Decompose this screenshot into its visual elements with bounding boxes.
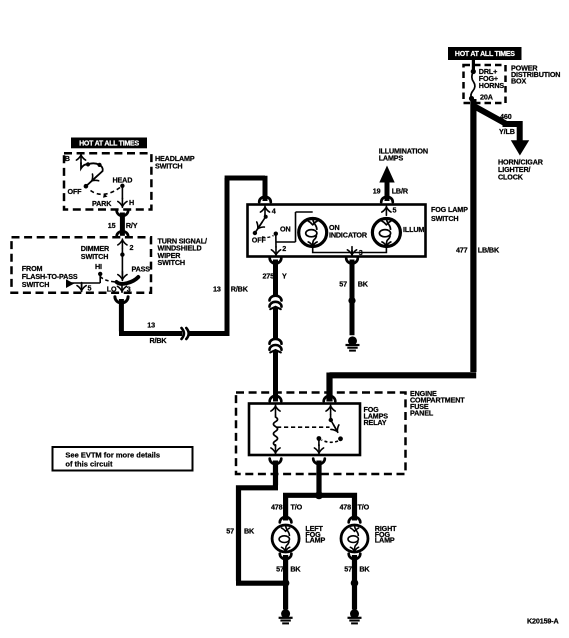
svg-text:3: 3 <box>359 248 363 257</box>
svg-text:BK: BK <box>358 279 369 288</box>
svg-text:Y/LB: Y/LB <box>499 127 515 136</box>
svg-text:T/O: T/O <box>291 503 303 512</box>
svg-text:PASS: PASS <box>132 265 151 274</box>
svg-text:FOG LAMP: FOG LAMP <box>431 205 468 214</box>
svg-text:CLOCK: CLOCK <box>498 173 524 182</box>
svg-text:BOX: BOX <box>511 77 526 86</box>
svg-text:478: 478 <box>271 503 283 512</box>
svg-text:ON: ON <box>280 224 290 233</box>
svg-text:R/BK: R/BK <box>231 285 249 294</box>
svg-text:HI: HI <box>95 262 102 271</box>
svg-text:B: B <box>65 154 70 163</box>
svg-text:SWITCH: SWITCH <box>81 252 108 261</box>
svg-text:See EVTM for more details: See EVTM for more details <box>65 451 160 460</box>
svg-text:HORNS: HORNS <box>479 81 505 90</box>
svg-text:LB/BK: LB/BK <box>478 245 500 254</box>
svg-text:LAMP: LAMP <box>375 536 395 545</box>
svg-text:460: 460 <box>500 112 512 121</box>
svg-text:OFF: OFF <box>68 187 83 196</box>
svg-text:477: 477 <box>456 245 468 254</box>
svg-text:15: 15 <box>108 221 116 230</box>
svg-text:K20159-A: K20159-A <box>527 617 559 626</box>
svg-text:LAMPS: LAMPS <box>379 154 404 163</box>
svg-text:2: 2 <box>282 244 286 253</box>
svg-text:2: 2 <box>130 243 134 252</box>
svg-text:57: 57 <box>344 564 352 573</box>
svg-text:T/O: T/O <box>358 503 370 512</box>
svg-text:LB/R: LB/R <box>392 187 409 196</box>
svg-text:4: 4 <box>272 207 276 216</box>
svg-text:57: 57 <box>339 279 347 288</box>
svg-text:13: 13 <box>213 285 221 294</box>
svg-text:PARK: PARK <box>92 199 112 208</box>
svg-text:SWITCH: SWITCH <box>158 258 185 267</box>
svg-text:SWITCH: SWITCH <box>22 280 49 289</box>
svg-text:5: 5 <box>88 283 92 292</box>
svg-text:PANEL: PANEL <box>410 409 434 418</box>
svg-text:LO: LO <box>107 285 117 294</box>
svg-text:SWITCH: SWITCH <box>155 161 182 170</box>
svg-text:SWITCH: SWITCH <box>431 214 458 223</box>
svg-text:LAMP: LAMP <box>305 536 325 545</box>
svg-text:20A: 20A <box>480 93 493 102</box>
svg-text:R/Y: R/Y <box>126 221 138 230</box>
svg-text:R/BK: R/BK <box>150 336 168 345</box>
svg-text:BK: BK <box>359 564 370 573</box>
svg-text:HOT AT ALL TIMES: HOT AT ALL TIMES <box>79 141 139 148</box>
svg-text:57: 57 <box>276 564 284 573</box>
svg-text:ILLUM: ILLUM <box>403 225 424 234</box>
svg-text:5: 5 <box>393 205 397 214</box>
svg-text:478: 478 <box>339 503 351 512</box>
svg-text:BK: BK <box>244 526 255 535</box>
svg-text:57: 57 <box>226 526 234 535</box>
svg-text:HEAD: HEAD <box>113 175 133 184</box>
svg-text:13: 13 <box>147 321 155 330</box>
svg-text:of this circuit: of this circuit <box>65 460 113 469</box>
svg-text:INDICATOR: INDICATOR <box>329 230 368 239</box>
svg-text:HOT AT ALL TIMES: HOT AT ALL TIMES <box>455 51 515 58</box>
svg-text:19: 19 <box>373 187 381 196</box>
svg-text:3: 3 <box>127 285 131 294</box>
svg-text:Y: Y <box>282 272 287 281</box>
svg-text:H: H <box>129 198 134 207</box>
svg-text:275: 275 <box>262 272 274 281</box>
svg-text:RELAY: RELAY <box>364 418 387 427</box>
svg-text:BK: BK <box>290 564 301 573</box>
